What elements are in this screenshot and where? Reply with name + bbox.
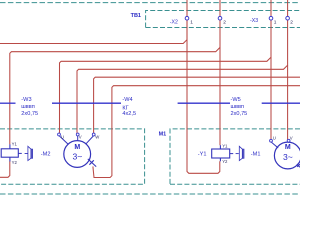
motor M2 terminal V [76,133,82,141]
svg-text:M: M [74,144,80,151]
motor M1 ground tick [297,164,300,167]
cabinet border bottom (dashed) [0,193,300,195]
svg-text:-W4: -W4 [122,97,132,103]
terminal X3:2 [286,16,293,25]
motor M2 terminal U [58,133,69,144]
motor M2 ground tick [88,159,96,167]
cable W3 group line [0,102,16,104]
enclosure box unit M1 (dashed, right) [170,129,300,184]
svg-text:-Y1: -Y1 [198,151,207,157]
svg-text:1: 1 [190,20,193,26]
svg-text:шввп: шввп [21,104,34,110]
svg-text:V: V [290,136,293,141]
svg-text:U: U [61,135,64,140]
wire supply stub to X3:1 [270,0,272,16]
wire X2:2 drop to right solenoid pin Y1 [219,47,221,145]
svg-text:V: V [79,135,82,140]
svg-text:2х0,75: 2х0,75 [21,111,38,117]
cable W5 label [231,97,248,117]
motor M1 terminal V [287,136,293,143]
svg-text:3~: 3~ [72,152,82,162]
svg-text:Y1: Y1 [12,142,18,147]
wire supply stub to X2:1 [186,0,188,16]
cable W3 label [21,97,38,117]
svg-text:3~: 3~ [283,152,293,162]
svg-text:TB1: TB1 [131,13,141,19]
svg-text:2: 2 [290,20,293,26]
svg-text:2: 2 [223,20,226,26]
terminal box TB1 (dashed enclosure) [146,11,300,28]
motor M2 terminal W [86,133,100,144]
svg-text:4х2,5: 4х2,5 [122,111,136,117]
buzzer M1 [236,146,244,160]
wire A: X2:1 to left edge [0,20,187,44]
wire C1: X3:1 to left motor U [60,20,272,133]
terminal X2:1 [185,16,193,25]
wire supply stub to X3:2 [287,0,289,16]
wire left solenoid pin Y2 return to left edge [0,161,10,177]
svg-text:Y2: Y2 [222,159,228,164]
svg-text:M1: M1 [159,131,167,137]
svg-text:-M2: -M2 [41,151,51,157]
svg-text:шввп: шввп [231,104,244,110]
svg-text:-M1: -M1 [251,151,261,157]
wire C2: X3:2 to left motor V [77,20,288,133]
wire supply stub to X2:2 [219,0,221,16]
enclosure box unit M2 (dashed, left) [0,129,145,184]
wire X3:1 drop to right motor U [270,57,272,139]
cable W6 group line (cut at right edge) [262,102,300,104]
svg-text:-W3: -W3 [21,97,31,103]
svg-text:M: M [285,144,291,151]
svg-text:-X3: -X3 [250,18,258,24]
motor M1 (right) [274,142,301,169]
buzzer M2 [25,146,33,160]
svg-text:1: 1 [274,20,277,26]
wire X2:1 drop to solenoid Y1 pin Y2 [187,20,220,173]
wire B: X2:2 to left solenoid Y1 feed [10,20,220,144]
terminal X3:1 [269,16,277,25]
motor M1 terminal U [270,136,279,148]
svg-text:Y2: Y2 [12,160,18,165]
cable W4 label [122,97,136,117]
svg-text:U: U [273,136,276,141]
terminal X2:2 [218,16,226,25]
svg-text:Y1: Y1 [222,144,228,149]
cable W4 group line [52,102,121,104]
wire C3: right edge to left motor W [94,77,300,133]
solenoid -Y1 (right unit) [212,144,234,164]
solenoid Y1 (left unit) [1,142,22,165]
svg-text:-W5: -W5 [231,97,241,103]
cable W5 group line [178,102,230,104]
cabinet border top (dashed) [0,2,300,4]
wire X3:2 drop to right motor V [287,65,289,139]
svg-text:-X2: -X2 [170,20,178,26]
svg-text:2х0,75: 2х0,75 [231,111,248,117]
wire C4: right edge to left motor PE [93,86,300,178]
motor M2 (left) [64,141,91,168]
